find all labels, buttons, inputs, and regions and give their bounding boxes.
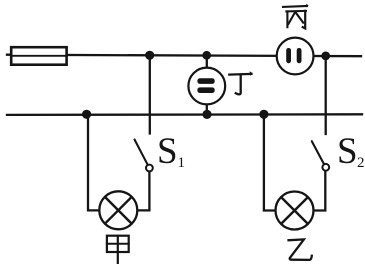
svg-text:1: 1	[178, 155, 186, 171]
svg-text:S: S	[157, 131, 178, 172]
svg-text:S: S	[337, 131, 358, 172]
svg-text:2: 2	[357, 155, 365, 171]
